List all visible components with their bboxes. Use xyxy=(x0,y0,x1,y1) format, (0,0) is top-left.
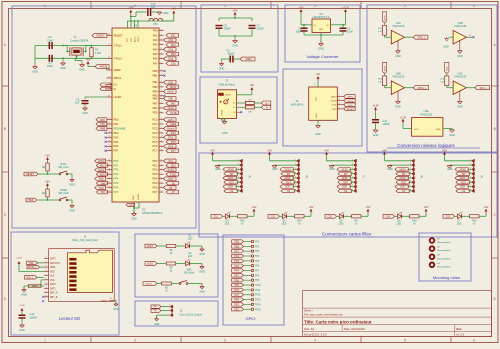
svg-text:R17: R17 xyxy=(354,221,359,223)
svg-text:TP14: TP14 xyxy=(255,303,261,306)
svg-text:MISO: MISO xyxy=(460,178,466,180)
svg-text:PD6: PD6 xyxy=(152,186,158,190)
label RESET at U1 xyxy=(92,34,107,38)
svg-text:PD1: PD1 xyxy=(152,163,158,167)
svg-text:GND: GND xyxy=(387,168,393,171)
svg-text:3: 3 xyxy=(224,339,226,343)
svg-text:8: 8 xyxy=(352,189,353,191)
svg-text:TP5: TP5 xyxy=(255,260,260,263)
LED indicator D7 with resistor xyxy=(443,205,489,225)
svg-text:PB6: PB6 xyxy=(153,96,158,100)
label AREF caps box xyxy=(240,57,255,61)
svg-text:CS: CS xyxy=(462,191,466,193)
svg-text:MOSI_L: MOSI_L xyxy=(28,267,37,269)
svg-text:RESET: RESET xyxy=(347,109,355,111)
svg-text:U2: U2 xyxy=(319,12,323,16)
svg-text:MOSI: MOSI xyxy=(460,169,466,171)
label RX xyxy=(151,305,171,309)
svg-text:Size: A4: Size: A4 xyxy=(304,327,314,331)
wire AREF to U1 xyxy=(105,67,108,71)
svg-text:5: 5 xyxy=(161,97,162,99)
svg-text:INT: INT xyxy=(402,174,406,176)
text U1 top power pin names xyxy=(127,36,140,42)
wire U2 ground rail xyxy=(304,33,343,43)
label D- at U1 xyxy=(100,87,111,91)
svg-text:SW_Push: SW_Push xyxy=(184,273,195,275)
svg-text:LED1: LED1 xyxy=(168,119,175,122)
resistor R12 3.3k xyxy=(378,25,391,37)
svg-text:DET_B: DET_B xyxy=(50,297,58,299)
svg-text:+5V: +5V xyxy=(45,154,50,158)
svg-text:5: 5 xyxy=(161,160,162,162)
svg-text:VCC: VCC xyxy=(127,37,129,42)
svg-text:PD2: PD2 xyxy=(152,168,158,172)
svg-text:74HCx125: 74HCx125 xyxy=(420,113,433,117)
svg-text:5: 5 xyxy=(161,53,162,55)
label MOSI_L out U3D xyxy=(405,86,429,90)
label D- USB xyxy=(254,105,270,109)
svg-text:DAT1: DAT1 xyxy=(50,287,56,290)
svg-text:6: 6 xyxy=(109,177,110,179)
svg-text:GND: GND xyxy=(395,55,401,58)
ground C11 xyxy=(373,123,379,137)
svg-text:+5V: +5V xyxy=(233,8,238,12)
label SCK_L out U3C xyxy=(466,86,489,90)
svg-text:MOSI: MOSI xyxy=(400,169,406,171)
wire ISP vcc xyxy=(315,80,318,87)
svg-text:AREF: AREF xyxy=(100,66,107,69)
svg-text:CS2: CS2 xyxy=(271,217,276,219)
mounting hole H3 xyxy=(430,254,452,260)
ground GND right of C19 xyxy=(157,12,168,15)
op U2 LM1117 body xyxy=(312,12,331,33)
svg-text:PF7: PF7 xyxy=(114,190,119,194)
svg-text:Sheet: /: Sheet: / xyxy=(304,309,314,313)
capacitor C7 100nF xyxy=(249,23,265,30)
svg-text:5: 5 xyxy=(161,62,162,64)
svg-text:PC4: PC4 xyxy=(152,135,158,139)
svg-text:PA2: PA2 xyxy=(153,38,158,42)
svg-text:CS1: CS1 xyxy=(214,217,219,219)
svg-text:MOSI: MOSI xyxy=(170,86,176,89)
svg-text:6: 6 xyxy=(109,164,110,166)
pin SHIELD sd xyxy=(101,298,114,303)
op-amp buffer U3D 74HCx125 xyxy=(391,71,405,108)
svg-text:RST: RST xyxy=(401,182,406,184)
svg-text:+5V: +5V xyxy=(129,7,134,10)
svg-text:UVCC: UVCC xyxy=(138,36,140,42)
svg-text:3: 3 xyxy=(109,145,110,147)
wire U2 input xyxy=(301,13,312,26)
pin stubs U1 port A xyxy=(153,29,164,66)
svg-text:3: 3 xyxy=(109,127,110,129)
svg-text:74HCx125: 74HCx125 xyxy=(454,24,467,28)
svg-text:D-: D- xyxy=(105,88,108,91)
svg-text:+5V: +5V xyxy=(324,148,329,152)
svg-text:GND: GND xyxy=(19,329,25,332)
svg-text:RS3: RS3 xyxy=(171,53,176,56)
svg-text:PB7: PB7 xyxy=(171,103,176,106)
svg-text:U3C: U3C xyxy=(457,71,462,75)
svg-text:HWB1: HWB1 xyxy=(60,190,67,192)
resistor R2 22R xyxy=(237,106,255,114)
power +5V ISP xyxy=(316,74,321,80)
label cluster U1 left lower xyxy=(95,159,108,194)
svg-text:5: 5 xyxy=(161,182,162,184)
ground crystal right xyxy=(75,58,85,71)
ground C12 xyxy=(19,319,25,333)
svg-text:ADC3: ADC3 xyxy=(100,173,107,176)
svg-text:PC4: PC4 xyxy=(234,255,239,258)
svg-text:RESET: RESET xyxy=(114,34,124,38)
svg-text:3: 3 xyxy=(238,168,239,170)
svg-text:Date: 04/10/2025: Date: 04/10/2025 xyxy=(344,327,365,331)
svg-text:VCC: VCC xyxy=(414,129,419,131)
svg-text:2: 2 xyxy=(410,164,411,166)
title block kicad id xyxy=(304,332,464,336)
section box MCU area xyxy=(12,6,196,228)
svg-text:PB5: PB5 xyxy=(234,241,239,244)
svg-text:GND: GND xyxy=(315,133,321,136)
section box LEDs and button xyxy=(135,234,218,297)
resistor R14 3.3k xyxy=(440,76,453,88)
svg-text:GND: GND xyxy=(129,205,134,207)
svg-text:VBUS: VBUS xyxy=(114,76,122,80)
svg-text:8: 8 xyxy=(238,189,239,191)
label cluster J6 xyxy=(344,95,356,111)
svg-text:B: B xyxy=(494,127,496,131)
section box serial connector xyxy=(135,301,218,326)
svg-text:FB1: FB1 xyxy=(153,23,158,26)
label MISO sd xyxy=(29,284,45,288)
svg-text:PA4: PA4 xyxy=(234,270,239,273)
connector J2 socket xyxy=(169,305,202,317)
svg-text:6: 6 xyxy=(410,181,411,183)
svg-text:VO: VO xyxy=(326,25,329,27)
svg-text:+5V: +5V xyxy=(382,148,387,152)
svg-text:SCK: SCK xyxy=(460,187,465,189)
svg-text:CS: CS xyxy=(230,191,234,193)
svg-text:7: 7 xyxy=(46,283,47,285)
capacitor C19 1uF xyxy=(147,3,156,16)
label GND small box at U1 bottom xyxy=(126,203,135,206)
svg-text:DAT2: DAT2 xyxy=(50,258,56,261)
svg-text:8: 8 xyxy=(109,77,110,79)
svg-text:Micro_SD_Card_Det2: Micro_SD_Card_Det2 xyxy=(72,238,98,242)
svg-text:TP13: TP13 xyxy=(255,299,261,302)
svg-text:DET_A: DET_A xyxy=(50,292,58,295)
svg-text:TP2: TP2 xyxy=(255,245,260,248)
svg-text:PB0: PB0 xyxy=(153,69,158,73)
svg-text:5: 5 xyxy=(161,57,162,59)
svg-text:3: 3 xyxy=(109,123,110,125)
svg-text:MISO: MISO xyxy=(342,178,348,180)
svg-text:PD5: PD5 xyxy=(152,181,158,185)
svg-text:5: 5 xyxy=(161,48,162,50)
svg-text:5: 5 xyxy=(161,136,162,138)
svg-text:PA4: PA4 xyxy=(153,47,158,51)
ground SW1 xyxy=(188,284,205,294)
ground D2 xyxy=(190,264,205,274)
svg-text:PE7: PE7 xyxy=(234,274,239,277)
power +5V AREF xyxy=(86,58,95,67)
text GPIO xyxy=(245,316,255,321)
op J1 micro SD connector body xyxy=(49,234,115,301)
label HWB at HWB1 xyxy=(26,198,37,202)
svg-text:6: 6 xyxy=(109,173,110,175)
wire J2 gnd xyxy=(157,315,169,317)
svg-text:GND: GND xyxy=(436,129,441,131)
svg-text:GND: GND xyxy=(316,113,318,118)
svg-text:7: 7 xyxy=(295,185,296,187)
ground J2 xyxy=(154,317,160,326)
label SCK_L sd xyxy=(25,276,45,280)
svg-text:GND: GND xyxy=(219,68,225,71)
svg-text:+5V: +5V xyxy=(45,180,50,184)
section box conversion niveaux logiques xyxy=(367,5,497,152)
label D+ USB xyxy=(254,101,270,105)
svg-text:GND: GND xyxy=(215,168,221,171)
wire U1 top power stubs xyxy=(127,20,173,28)
svg-text:PC1: PC1 xyxy=(152,122,158,126)
svg-text:PE4: PE4 xyxy=(114,135,119,139)
svg-text:PC7: PC7 xyxy=(234,250,239,253)
svg-text:VSS: VSS xyxy=(50,280,55,282)
wire U1 bottom ground xyxy=(133,202,139,214)
svg-text:OC1A: OC1A xyxy=(167,107,174,110)
svg-text:GND: GND xyxy=(131,218,137,221)
text Conversion niveaux logiques xyxy=(387,143,480,148)
ground D1 xyxy=(190,246,205,256)
power +3.3V C11 xyxy=(372,106,379,113)
connector J7 daughter card xyxy=(324,148,365,193)
svg-text:MISO: MISO xyxy=(348,97,354,99)
svg-text:1: 1 xyxy=(238,159,239,161)
svg-text:MOSI: MOSI xyxy=(384,15,386,21)
svg-text:PF4: PF4 xyxy=(114,177,119,181)
LED indicator D5 with resistor xyxy=(325,205,371,225)
svg-text:5: 5 xyxy=(161,102,162,104)
mounting hole H2 xyxy=(430,238,452,244)
section box lecteur SD xyxy=(11,232,119,335)
svg-text:GND: GND xyxy=(21,294,27,297)
svg-text:2: 2 xyxy=(352,164,353,166)
svg-text:R18: R18 xyxy=(412,221,417,223)
svg-text:+5V: +5V xyxy=(252,205,257,209)
ground crystal center xyxy=(60,58,66,70)
svg-text:SCK: SCK xyxy=(400,187,405,189)
svg-text:5: 5 xyxy=(161,86,162,88)
svg-text:7: 7 xyxy=(352,185,353,187)
svg-text:5: 5 xyxy=(161,127,162,129)
ground caps box xyxy=(232,36,238,48)
ground U3E xyxy=(449,130,455,137)
svg-text:SCL: SCL xyxy=(168,160,173,163)
svg-text:PE2/HWB: PE2/HWB xyxy=(114,126,126,130)
svg-text:PE5: PE5 xyxy=(114,140,119,144)
svg-text:74HCx125: 74HCx125 xyxy=(454,75,467,79)
svg-text:GND: GND xyxy=(163,12,169,15)
svg-text:PC6: PC6 xyxy=(152,144,158,148)
svg-text:GND: GND xyxy=(113,308,119,311)
svg-text:RST: RST xyxy=(343,182,348,184)
svg-text:+3.3V: +3.3V xyxy=(16,258,22,260)
svg-text:8: 8 xyxy=(410,189,411,191)
svg-text:7: 7 xyxy=(238,185,239,187)
label cluster U1 port C xyxy=(164,118,179,153)
svg-text:MISO: MISO xyxy=(400,178,406,180)
svg-text:3: 3 xyxy=(109,88,110,90)
connector J9 daughter card xyxy=(442,148,483,193)
svg-text:PA3: PA3 xyxy=(153,43,158,47)
no-connect USB ID xyxy=(237,111,243,113)
svg-text:11: 11 xyxy=(110,298,112,300)
svg-text:2: 2 xyxy=(109,44,110,46)
svg-text:R19: R19 xyxy=(472,221,477,223)
svg-text:CS: CS xyxy=(344,191,348,193)
svg-text:Crystal_GND24: Crystal_GND24 xyxy=(70,38,89,42)
svg-text:1: 1 xyxy=(410,159,411,161)
power +5V caps box xyxy=(233,8,238,16)
svg-text:TP10: TP10 xyxy=(255,284,261,287)
svg-text:2: 2 xyxy=(134,339,136,343)
svg-text:22R: 22R xyxy=(248,111,252,113)
svg-text:1: 1 xyxy=(44,339,46,343)
svg-text:UGND: UGND xyxy=(138,194,140,200)
svg-text:Conn_01x03_Socket: Conn_01x03_Socket xyxy=(180,314,203,317)
svg-text:VCC: VCC xyxy=(316,96,318,101)
svg-text:AVCC: AVCC xyxy=(134,36,137,42)
svg-text:Connecteurs cartes filles: Connecteurs cartes filles xyxy=(322,232,372,237)
connector J5 daughter card xyxy=(267,148,308,193)
svg-text:+5V: +5V xyxy=(267,148,272,152)
svg-text:TP9: TP9 xyxy=(255,279,260,282)
svg-text:PC6: PC6 xyxy=(168,145,173,148)
svg-text:GND: GND xyxy=(199,291,205,294)
svg-text:5: 5 xyxy=(295,177,296,179)
svg-text:5: 5 xyxy=(161,132,162,134)
svg-text:+5V: +5V xyxy=(309,205,314,209)
svg-text:PA6: PA6 xyxy=(153,57,158,61)
svg-text:PD4: PD4 xyxy=(152,177,158,181)
svg-text:DAT3/CD: DAT3/CD xyxy=(50,262,60,265)
test points GPIO TP1-TP15 xyxy=(232,240,261,312)
svg-text:PC6: PC6 xyxy=(234,265,239,268)
svg-text:100nF: 100nF xyxy=(224,27,232,31)
wire caps bottom rail xyxy=(219,29,252,37)
label cluster U1 left PE xyxy=(96,118,107,152)
svg-text:HWB: HWB xyxy=(100,128,106,131)
svg-text:20: 20 xyxy=(108,34,110,36)
svg-text:LED: LED xyxy=(225,224,230,226)
svg-text:+5V: +5V xyxy=(424,205,429,209)
svg-text:File: pico_carte_mere.kicad_sc: File: pico_carte_mere.kicad_sch xyxy=(304,313,343,317)
svg-text:CS5: CS5 xyxy=(446,217,451,219)
junction crystal nodes xyxy=(62,45,92,60)
svg-text:+5V: +5V xyxy=(172,8,177,11)
wire RESET label xyxy=(29,173,31,175)
svg-text:6: 6 xyxy=(238,181,239,183)
resistor R1 22R xyxy=(237,99,255,104)
svg-text:9: 9 xyxy=(46,291,47,293)
svg-text:5: 5 xyxy=(352,177,353,179)
svg-text:+5V: +5V xyxy=(299,6,304,10)
mounting hole H4 xyxy=(430,263,452,269)
svg-text:5: 5 xyxy=(161,90,162,92)
wire VBUS to +5V xyxy=(237,92,252,95)
svg-text:SCK: SCK xyxy=(332,105,337,107)
svg-text:Mounting holes: Mounting holes xyxy=(433,275,460,280)
svg-text:PD7: PD7 xyxy=(234,304,239,307)
svg-text:3: 3 xyxy=(339,103,340,105)
svg-text:SCK: SCK xyxy=(447,66,449,71)
svg-text:GND: GND xyxy=(449,134,455,137)
svg-text:3: 3 xyxy=(46,266,47,268)
svg-text:5: 5 xyxy=(161,94,162,96)
svg-text:XTAL2: XTAL2 xyxy=(114,56,123,60)
svg-text:RS2: RS2 xyxy=(171,44,176,47)
svg-text:LED: LED xyxy=(188,256,193,258)
svg-text:5: 5 xyxy=(161,118,162,120)
svg-text:PA5: PA5 xyxy=(153,52,158,56)
svg-text:MOSI: MOSI xyxy=(331,101,337,103)
section box AVR-ISP xyxy=(283,69,362,146)
svg-text:5: 5 xyxy=(404,339,406,343)
svg-text:PC7: PC7 xyxy=(171,150,176,153)
svg-text:PF7: PF7 xyxy=(234,294,239,297)
svg-text:U3E: U3E xyxy=(423,109,428,113)
svg-text:PD0: PD0 xyxy=(152,159,158,163)
svg-text:SW1: SW1 xyxy=(186,270,192,272)
svg-text:4: 4 xyxy=(352,172,353,174)
svg-text:SCK: SCK xyxy=(348,105,353,107)
capacitor C2 22pF xyxy=(47,55,53,68)
svg-text:TP8: TP8 xyxy=(255,274,260,277)
svg-text:GND: GND xyxy=(395,106,401,109)
svg-text:PB4: PB4 xyxy=(234,299,239,302)
ground C3 xyxy=(82,104,88,115)
svg-text:TMS: TMS xyxy=(100,182,105,185)
mounting hole H5 xyxy=(430,246,452,252)
svg-text:PC5: PC5 xyxy=(171,141,176,144)
svg-text:LED: LED xyxy=(282,224,287,226)
svg-text:1: 1 xyxy=(470,159,471,161)
text U1 bottom pin names xyxy=(133,194,140,200)
label RESET at RST1 xyxy=(24,172,38,176)
svg-text:PA7: PA7 xyxy=(153,61,158,65)
text Mounting holes xyxy=(433,275,460,280)
svg-text:PF0: PF0 xyxy=(114,159,119,163)
sd card shape xyxy=(67,250,112,292)
svg-text:SHIELD: SHIELD xyxy=(101,300,109,302)
svg-text:LED2: LED2 xyxy=(170,123,177,126)
svg-text:42: 42 xyxy=(108,69,110,71)
svg-text:+3.3V: +3.3V xyxy=(19,305,25,307)
svg-text:MOSI_L: MOSI_L xyxy=(418,88,427,90)
svg-text:SCK: SCK xyxy=(168,81,173,84)
wire caps top rail xyxy=(219,16,252,21)
svg-text:INT: INT xyxy=(462,174,466,176)
svg-text:6: 6 xyxy=(46,278,47,280)
svg-text:RS1: RS1 xyxy=(171,35,176,38)
svg-text:8: 8 xyxy=(295,189,296,191)
svg-text:MISO: MISO xyxy=(331,96,337,98)
svg-text:5: 5 xyxy=(238,177,239,179)
svg-text:U3A: U3A xyxy=(396,21,401,25)
svg-text:RST: RST xyxy=(229,182,234,184)
svg-text:+3.2V: +3.2V xyxy=(342,6,349,10)
svg-text:CS4: CS4 xyxy=(386,217,391,219)
